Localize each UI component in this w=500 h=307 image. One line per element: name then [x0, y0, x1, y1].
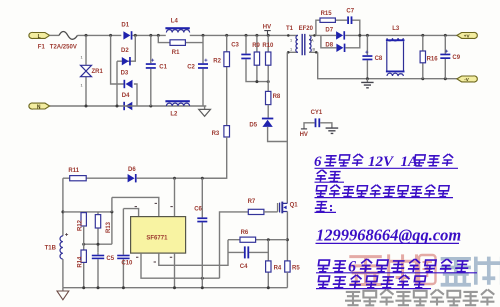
watermark blue-gray 培训 — [441, 257, 500, 285]
svg-text:HV: HV — [300, 132, 308, 138]
underline 6 — [316, 288, 431, 290]
IC pin3 stub — [174, 178, 176, 216]
junction — [85, 105, 88, 108]
junction — [85, 34, 88, 37]
svg-text:T1B: T1B — [45, 245, 57, 251]
choke L3 body — [387, 41, 404, 70]
ad text line 1 — [314, 154, 454, 170]
choke L3 top winding — [386, 38, 405, 41]
diode D7 — [336, 31, 345, 39]
svg-text:C2: C2 — [187, 65, 195, 71]
svg-text:L4: L4 — [171, 19, 179, 25]
junction — [267, 34, 270, 37]
wire D8 to cathode rail — [345, 35, 359, 47]
svg-text:R10: R10 — [262, 43, 274, 49]
svg-text:R9: R9 — [252, 43, 260, 49]
junction — [97, 286, 100, 289]
junction — [255, 34, 258, 37]
svg-text:D3: D3 — [121, 71, 129, 77]
junction — [97, 243, 100, 246]
svg-text:HV: HV — [263, 25, 271, 31]
junction — [267, 238, 270, 241]
ad text line 5 — [317, 258, 469, 275]
T1B aux winding wire — [62, 178, 64, 236]
connector L — [29, 32, 50, 39]
wire aux node horizontal — [63, 211, 112, 213]
diode D8 — [336, 44, 345, 52]
underline 4 — [315, 211, 337, 213]
capacitor C2 wires — [202, 35, 204, 106]
svg-text:R4: R4 — [274, 266, 282, 272]
capacitor C4 wires — [228, 251, 268, 253]
resistor R15 — [320, 18, 335, 22]
svg-text:D6: D6 — [128, 167, 136, 173]
capacitor C10 wires — [122, 209, 124, 288]
diode D4 — [123, 102, 132, 110]
wire Q1 source down — [286, 212, 288, 261]
junction — [245, 34, 248, 37]
svg-text:C1: C1 — [159, 65, 167, 71]
diode D3 — [124, 80, 133, 88]
earth ground secondary — [361, 79, 373, 88]
svg-text:R1: R1 — [172, 50, 180, 56]
junction — [173, 286, 176, 289]
junction — [421, 77, 424, 80]
resistor R1 — [170, 40, 185, 46]
watermark gray text RF antenna expert — [345, 290, 494, 306]
svg-text:R3: R3 — [212, 131, 220, 137]
junction — [116, 105, 119, 108]
connector N — [29, 103, 50, 110]
underline 2 — [315, 181, 345, 183]
diode D6 — [128, 174, 137, 182]
junction — [225, 34, 228, 37]
svg-text:+V: +V — [464, 34, 471, 39]
svg-text:R12: R12 — [77, 219, 83, 231]
svg-text:R7: R7 — [248, 199, 256, 205]
ad text line 6 — [317, 275, 425, 288]
capacitor C3 wires — [246, 35, 257, 81]
svg-text:D8: D8 — [325, 42, 333, 48]
ad text line 3 — [316, 185, 450, 197]
wire T1B to ground bus — [62, 259, 64, 288]
svg-text:N: N — [37, 104, 41, 110]
connector +V — [457, 32, 477, 38]
plus mark C9 — [445, 50, 448, 53]
wire R7 to gate — [264, 211, 278, 213]
transformer T1 primary winding — [287, 35, 298, 52]
wire R8 to D5 — [267, 105, 269, 118]
svg-text:SF6771: SF6771 — [146, 235, 168, 241]
junction — [286, 238, 289, 241]
underline 5 — [316, 272, 477, 274]
capacitor C3 — [241, 54, 250, 60]
svg-text:C4: C4 — [240, 264, 248, 270]
capacitor C8 — [362, 55, 372, 60]
feedback to IC pin wire — [112, 197, 159, 216]
svg-text:Q1: Q1 — [290, 202, 299, 208]
resistor R2 wires — [226, 35, 228, 125]
bridge rail D2-top — [122, 35, 136, 61]
diode D5 — [262, 118, 273, 127]
svg-text:ZR1: ZR1 — [92, 69, 104, 75]
transistor Q1 — [278, 202, 288, 214]
CY1 left wire to HV stub — [301, 123, 315, 129]
connector -V — [457, 76, 477, 82]
svg-text:1299968664@qq.com: 1299968664@qq.com — [316, 226, 461, 245]
junction — [421, 34, 424, 37]
bridge rail D2-D4 — [117, 61, 122, 106]
resistor R9 — [254, 52, 259, 65]
svg-text:T1: T1 — [286, 26, 294, 32]
svg-text:C7: C7 — [346, 8, 354, 14]
junction — [366, 77, 369, 80]
inductor L2 — [165, 100, 189, 106]
capacitor C9 — [440, 54, 450, 59]
resistor R4 wires — [267, 240, 269, 288]
junction — [149, 105, 152, 108]
capacitor C9 wires — [444, 35, 446, 78]
choke L3 bottom winding — [386, 71, 405, 76]
svg-text:EF20: EF20 — [299, 26, 314, 32]
wire R6 row — [228, 239, 287, 241]
svg-text:D2: D2 — [121, 48, 129, 54]
secondary return wire — [318, 52, 457, 78]
svg-text:CY1: CY1 — [311, 110, 323, 116]
svg-text:L3: L3 — [392, 26, 400, 32]
lower node horizontal — [84, 243, 112, 245]
resistor R2 — [224, 52, 230, 67]
wire D1 to L4 — [132, 34, 165, 36]
ad text line 2 — [315, 170, 341, 182]
junction — [201, 177, 204, 180]
wire R5 to bus — [286, 272, 288, 288]
plus mark T1B — [65, 233, 68, 236]
svg-text:C10: C10 — [121, 260, 133, 266]
junction — [267, 286, 270, 289]
svg-text:12V 1A: 12V 1A — [368, 154, 418, 170]
wire D7 to output — [345, 34, 457, 36]
svg-text:R14: R14 — [77, 256, 83, 268]
junction — [173, 177, 176, 180]
capacitor C7 — [347, 16, 352, 24]
junction — [82, 243, 85, 246]
ad text line 4 — [314, 202, 332, 212]
svg-text:L: L — [38, 34, 41, 40]
capacitor C1 — [146, 63, 156, 69]
diode D1 — [123, 31, 132, 39]
junction — [366, 34, 369, 37]
junction — [61, 210, 64, 213]
earth ground CY1 — [326, 128, 339, 133]
junction — [255, 80, 258, 83]
junction — [109, 34, 112, 37]
resistor R13 wires — [97, 212, 99, 253]
resistor R14 — [81, 250, 86, 262]
capacitor C4 — [244, 246, 249, 258]
CY1 right wire to earth — [320, 123, 332, 128]
svg-text:C5: C5 — [106, 256, 114, 262]
pin marks top — [135, 203, 173, 206]
svg-text:6: 6 — [314, 154, 322, 170]
capacitor C6 wires — [201, 178, 203, 288]
IC bottom stub pin sense — [159, 240, 228, 266]
varistor ZR1 vertical wire — [85, 35, 87, 106]
diode D2 — [122, 57, 131, 65]
underline 1 — [315, 167, 459, 169]
ground primary (open triangle) — [199, 106, 211, 116]
junction — [82, 286, 85, 289]
net flag HV — [263, 25, 271, 36]
wire secondary top to D7 — [316, 34, 336, 36]
wire fuse to bridge (L line) — [78, 34, 122, 36]
svg-text:1: 1 — [290, 39, 292, 43]
junction — [134, 34, 137, 37]
wire gate drive riser — [220, 212, 249, 278]
resistor R16 wires — [422, 35, 424, 78]
svg-text:D5: D5 — [249, 123, 257, 129]
resistor R10 wires — [267, 35, 269, 91]
IC U1 SF6771 — [131, 217, 186, 254]
inductor L4 — [165, 27, 189, 32]
junction — [267, 80, 270, 83]
wire T1 primary bottom to Q1 drain — [286, 52, 288, 203]
feedback vertical — [111, 212, 113, 244]
capacitor C6 — [197, 217, 207, 222]
transformer T1 core — [302, 34, 305, 55]
capacitor C10 — [117, 255, 129, 260]
svg-text:D1: D1 — [121, 22, 129, 28]
bridge rail D3-D4 — [134, 84, 137, 106]
underline 3 — [315, 197, 454, 199]
wire N line — [50, 105, 207, 107]
svg-text:C8: C8 — [375, 56, 383, 62]
resistor R3 — [224, 126, 230, 137]
junction — [444, 77, 447, 80]
wire L4 right — [190, 34, 287, 36]
capacitor C1 wires — [150, 35, 152, 106]
varistor ZR1 — [81, 65, 92, 76]
wire L to fuse — [50, 34, 59, 36]
anode rail D7 D8 — [321, 35, 337, 47]
resistor R6 — [240, 237, 256, 242]
junction — [201, 277, 204, 280]
resistor R14 wires — [83, 226, 85, 288]
svg-text:R5: R5 — [292, 266, 300, 272]
capacitor C5 — [92, 255, 104, 260]
plus mark C8 — [365, 51, 368, 54]
resistor R4 — [266, 261, 271, 272]
svg-text:D4: D4 — [122, 93, 130, 99]
resistor R10 — [266, 52, 271, 65]
VCC wire with R11 — [63, 177, 227, 179]
transformer T1 secondary winding — [309, 35, 318, 52]
svg-text:R15: R15 — [321, 11, 333, 17]
junction — [149, 34, 152, 37]
IC bottom stub pin gate drive — [141, 253, 220, 278]
resistor R9 wires — [257, 35, 268, 81]
resistor R11 — [70, 176, 87, 181]
wire C10 to IC pin — [123, 209, 138, 217]
svg-text:C9: C9 — [452, 55, 460, 61]
junction — [157, 34, 160, 37]
resistor R16 — [420, 51, 425, 63]
chassis ground bottom-left — [57, 288, 69, 300]
snubber branch wire — [316, 20, 360, 35]
svg-text:R11: R11 — [68, 168, 79, 174]
junction — [110, 210, 113, 213]
svg-text:L2: L2 — [170, 112, 178, 118]
junction — [202, 34, 205, 37]
svg-text:1: 1 — [290, 48, 292, 52]
capacitor C5 wires — [97, 253, 99, 288]
pin marks bottom — [136, 257, 172, 262]
svg-text:D7: D7 — [325, 28, 333, 34]
winding T1B — [60, 236, 63, 259]
svg-text:R2: R2 — [213, 58, 221, 64]
ground bus — [63, 287, 288, 289]
resistor R12 — [81, 213, 86, 226]
svg-text:R16: R16 — [427, 56, 439, 62]
watermark red logo — [349, 254, 435, 284]
capacitor C2 — [198, 63, 208, 69]
bridge rail left — [111, 35, 124, 84]
svg-text:1: 1 — [81, 56, 83, 60]
svg-text:C3: C3 — [231, 42, 239, 48]
wire D5 to switch node — [268, 127, 288, 142]
plus mark C1 — [151, 59, 154, 62]
plus mark C2 — [204, 59, 207, 62]
capacitor CY1 — [315, 118, 321, 127]
junction — [201, 286, 204, 289]
svg-text:R8: R8 — [273, 94, 281, 100]
IC bottom stub pin gnd — [174, 253, 176, 288]
resistor R7 — [248, 209, 264, 214]
svg-text:F1 T2A/250V: F1 T2A/250V — [38, 45, 77, 51]
wire R3 to VCC line — [202, 137, 226, 178]
fuse F1 — [59, 32, 78, 40]
underline email — [316, 242, 460, 244]
svg-text:1: 1 — [81, 84, 83, 88]
resistor R13 — [95, 215, 100, 228]
junction — [358, 34, 361, 37]
svg-text:R6: R6 — [241, 230, 249, 236]
capacitor C8 wires — [366, 35, 368, 78]
resistor R1 branch wires — [158, 35, 203, 42]
resistor R8 — [266, 91, 271, 104]
svg-text:C6: C6 — [194, 207, 202, 213]
resistor R5 — [285, 261, 290, 272]
transformer pin dots — [287, 34, 290, 37]
junction — [122, 286, 125, 289]
junction — [444, 34, 447, 37]
